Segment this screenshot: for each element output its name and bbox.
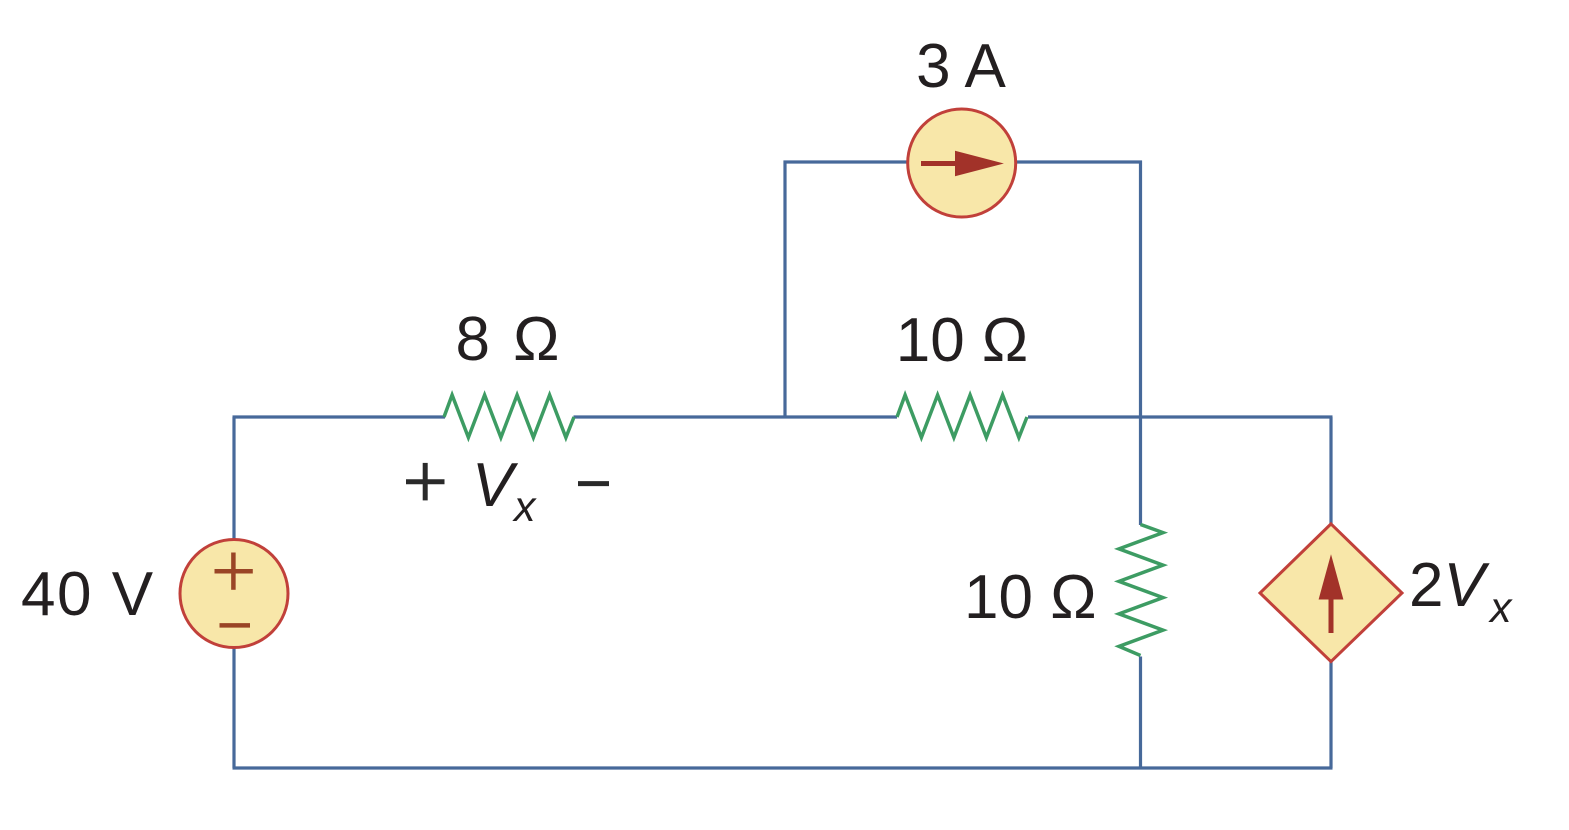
wire: main horizontal segment from 10-ohm resistor to right corner — [1028, 415, 1333, 418]
dependent source U1 arrow — [1319, 554, 1344, 633]
resistor R1 8-ohm zigzag — [444, 395, 574, 438]
wire: 3A loop left vertical — [783, 161, 786, 418]
wire: middle vertical lower segment (10-ohm bottom to bottom wire) — [1139, 657, 1142, 769]
svg-text:x: x — [1488, 584, 1513, 632]
wire: main horizontal segment between 8-ohm and 10-ohm resistors — [574, 415, 898, 418]
svg-text:10 Ω: 10 Ω — [964, 563, 1097, 632]
svg-text:V: V — [472, 451, 519, 520]
svg-text:x: x — [512, 483, 537, 531]
voltage source V1 plus sign — [215, 553, 253, 590]
wire: main horizontal segment from left corner to 8-ohm resistor — [233, 415, 446, 418]
wire: right vertical branch (2Vx branch) — [1329, 417, 1332, 768]
wire: left vertical branch (40V branch) — [232, 417, 235, 768]
wire: middle vertical upper segment (3A right / 10-ohm top) — [1139, 161, 1142, 526]
voltage source V1 minus sign — [220, 623, 251, 628]
resistor R3 10-ohm vertical zigzag — [1119, 525, 1163, 656]
svg-text:40 V: 40 V — [21, 560, 155, 629]
wire: bottom horizontal — [233, 766, 1333, 769]
label plus sign of Vx — [406, 463, 445, 501]
svg-text:8 Ω: 8 Ω — [455, 305, 562, 374]
current source I1 arrow — [921, 151, 1004, 177]
wire: 3A loop top horizontal — [784, 160, 1143, 163]
dependent source U1 2Vx diamond — [1260, 524, 1402, 662]
label minus sign of Vx — [578, 481, 609, 486]
resistor R2 10-ohm horizontal zigzag — [897, 395, 1027, 438]
voltage source V1 40V circle — [180, 540, 288, 648]
svg-text:3 A: 3 A — [916, 32, 1006, 101]
svg-text:2V: 2V — [1409, 551, 1490, 620]
svg-text:10 Ω: 10 Ω — [896, 306, 1029, 375]
current source I1 3A circle — [908, 109, 1016, 217]
